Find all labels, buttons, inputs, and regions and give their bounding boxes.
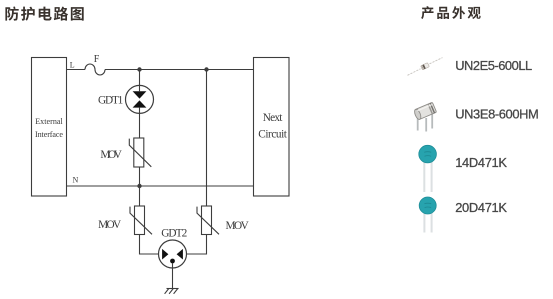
junction: L line / GDT1 branch [137,67,141,71]
ground [165,289,179,294]
wire: L line right segment [105,69,254,71]
svg-text:MOV: MOV [98,219,122,231]
wire: GDT1 top lead [139,70,141,86]
svg-text:External: External [35,117,63,126]
wire: N line [67,185,254,187]
svg-text:Circuit: Circuit [258,128,287,140]
title: 防护电路图 (protection circuit diagram) [5,7,83,21]
svg-text:20D471K: 20D471K [455,200,507,215]
box: Next Circuit [254,58,290,197]
varistor MOV2 (lower left) [130,206,152,235]
product photo: 20D471K varistor disc [419,197,436,233]
product photo: 14D471K varistor disc [419,145,437,192]
svg-text:Interface: Interface [35,130,63,139]
varistor MOV3 (lower right) [197,206,219,235]
product photo: UN2E5-600LL axial glass GDT [408,58,443,76]
svg-text:N: N [73,175,79,184]
gas discharge tube GDT1 [126,85,154,113]
title: 产品外观 (product appearance) [421,6,481,19]
wire: GDT1 to MOV1 [139,113,141,138]
svg-text:UN3E8-600HM: UN3E8-600HM [455,107,539,122]
svg-text:GDT2: GDT2 [161,228,187,240]
svg-text:L: L [70,60,75,69]
wire: L line left segment [67,69,86,71]
wire: MOV2 to GDT2 left [140,235,159,255]
svg-text:Next: Next [263,112,283,124]
box: External Interface [32,58,67,197]
fuse F [85,64,105,75]
varistor MOV1 (L-N) [129,138,151,167]
junction: N line / lower-left MOV branch [137,184,141,188]
wire: MOV1 to N line [139,167,141,186]
svg-text:F: F [94,54,100,65]
svg-text:GDT1: GDT1 [98,94,123,106]
svg-text:MOV: MOV [226,220,250,232]
wire: N to MOV2 [139,186,141,206]
gas discharge tube GDT2 (3-electrode) [159,240,187,268]
svg-text:14D471K: 14D471K [455,155,507,170]
wire: GDT2 to ground [172,263,174,289]
wire: MOV3 to GDT2 right [187,235,207,255]
svg-text:MOV: MOV [100,149,122,161]
product photo: UN3E8-600HM ceramic GDT [413,102,436,131]
junction: L line / right MOV branch [204,67,208,71]
wire: right branch vertical (L line to MOV3) [206,70,208,207]
svg-text:UN2E5-600LL: UN2E5-600LL [455,58,532,73]
